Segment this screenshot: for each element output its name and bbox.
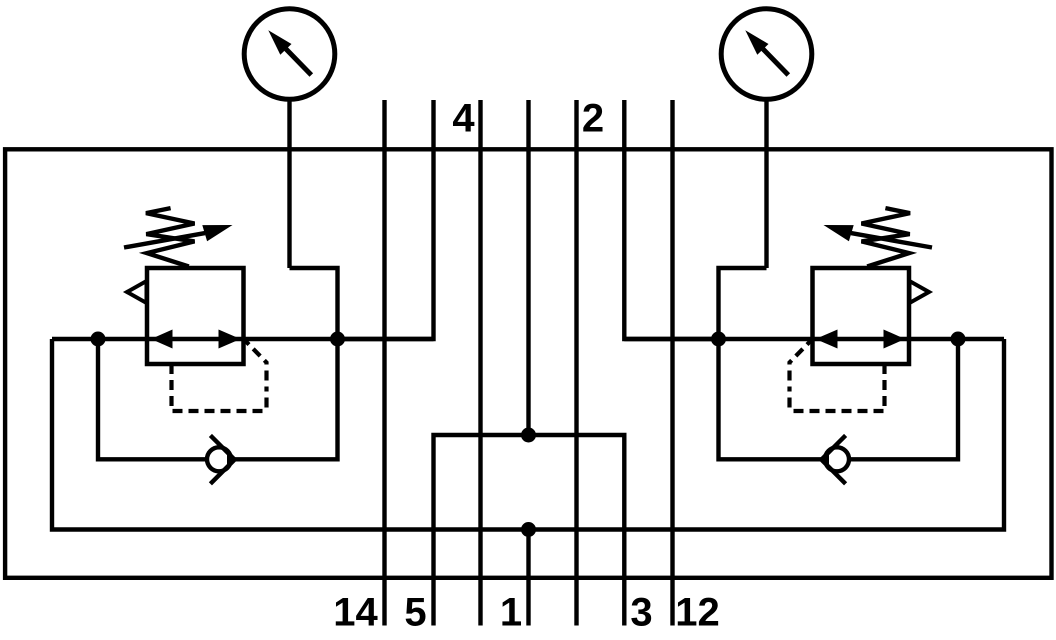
svg-text:4: 4 — [452, 97, 475, 141]
enclosure (manifold block outline) — [5, 149, 1051, 578]
check valve CV2 seat — [820, 435, 845, 483]
wire right bypass — [719, 339, 959, 459]
regulator R1 pilot dashed line — [172, 341, 267, 411]
regulator R1 arrow left — [151, 330, 173, 349]
regulator R2 body — [813, 268, 910, 364]
wire supply cross branch — [434, 435, 625, 626]
wire port 14 vertical — [382, 100, 386, 626]
node right bypass out — [711, 332, 726, 347]
pressure gauge PG2 — [719, 9, 812, 339]
wire port 1 lower stub — [526, 530, 530, 626]
svg-text:1: 1 — [500, 591, 522, 635]
svg-text:5: 5 — [404, 591, 426, 635]
node right bypass in — [951, 332, 966, 347]
pressure gauge PG1 — [244, 9, 337, 339]
check valve CV1 seat — [210, 435, 235, 483]
regulator R2 arrow left — [816, 330, 838, 349]
regulator R2 arrow right — [884, 330, 906, 349]
wire left bypass — [98, 339, 338, 459]
regulator R1 vent triangle — [127, 281, 147, 303]
regulator R2 pilot dashed line — [790, 341, 885, 411]
check valve CV1 body — [207, 447, 231, 471]
wire bottom loop — [52, 339, 1004, 530]
regulator R1 body — [147, 268, 244, 364]
wire pilot line to right regulator outlet — [624, 100, 718, 339]
regulator R1 arrow right — [219, 330, 241, 349]
wire right main line — [624, 337, 1004, 341]
svg-text:12: 12 — [675, 591, 720, 635]
check valve CV2 body — [825, 447, 849, 471]
regulator R1 spring — [146, 208, 195, 266]
node supply junction — [521, 428, 536, 443]
regulator R1 flow line — [147, 337, 244, 341]
wire port 4 vertical — [478, 100, 482, 626]
wire left main line — [52, 337, 434, 341]
regulator R2 flow line — [813, 337, 910, 341]
wire port 2 vertical — [574, 100, 578, 626]
wire port 12 vertical — [670, 100, 674, 626]
node left bypass out — [330, 332, 345, 347]
node port 1 junction — [521, 522, 536, 537]
wire pilot line to left regulator outlet — [338, 100, 434, 339]
regulator R1 adjustment arrow — [124, 225, 233, 248]
svg-text:3: 3 — [630, 591, 652, 635]
regulator R2 vent triangle — [910, 281, 930, 303]
svg-text:14: 14 — [333, 591, 378, 635]
wire port 1 supply upper segment — [526, 100, 530, 435]
svg-text:2: 2 — [582, 97, 604, 141]
regulator R2 adjustment arrow — [824, 225, 933, 248]
regulator R2 spring — [862, 208, 911, 266]
node left bypass in — [91, 332, 106, 347]
